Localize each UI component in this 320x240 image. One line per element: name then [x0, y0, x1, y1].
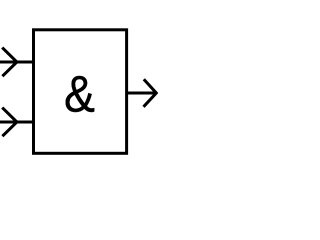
label &amp; (AND function) [64, 66, 95, 122]
arrowhead output Y [144, 79, 157, 107]
and-gate body U1 [34, 30, 127, 154]
svg-text:&: & [64, 66, 95, 122]
wire input A [0, 61, 35, 64]
arrowhead input A [2, 48, 17, 77]
arrowhead input B [2, 108, 17, 137]
wire output Y [127, 92, 156, 95]
wire input B [0, 121, 35, 124]
